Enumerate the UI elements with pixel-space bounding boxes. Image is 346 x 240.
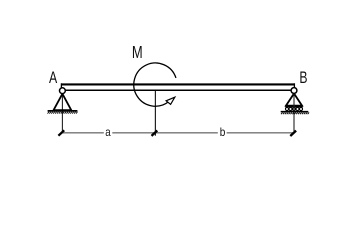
roller support B: base bar xyxy=(285,105,303,107)
pin support A: triangle xyxy=(54,94,72,110)
dimension tick at M xyxy=(152,131,158,136)
pin support A: hinge circle xyxy=(60,88,66,94)
roller support B: triangle xyxy=(286,94,302,106)
moment arc M xyxy=(134,63,176,106)
beam left end xyxy=(60,83,62,91)
svg-text:B: B xyxy=(299,68,307,87)
svg-text:b: b xyxy=(220,125,226,139)
svg-text:M: M xyxy=(132,42,143,62)
roller support B: hinge circle xyxy=(291,88,297,94)
dimension tick at B xyxy=(290,131,296,136)
beam right end xyxy=(293,83,295,91)
dimension extension line at B xyxy=(293,94,295,133)
ground hatching at A xyxy=(48,112,50,114)
svg-text:a: a xyxy=(105,125,111,139)
dimension tick at A xyxy=(58,130,64,135)
ground line at A xyxy=(48,110,78,112)
roller circles xyxy=(285,107,288,110)
beam top chord xyxy=(61,83,294,85)
moment arrowhead xyxy=(166,97,175,104)
dimension extension line at A xyxy=(61,94,63,133)
dimension extension line at M xyxy=(154,91,156,136)
ground hatching at B xyxy=(281,112,283,114)
ground line at B xyxy=(281,111,309,113)
dimension line b xyxy=(156,132,218,134)
svg-text:A: A xyxy=(49,68,58,87)
beam bottom chord xyxy=(61,89,294,91)
dimension line a xyxy=(63,132,104,134)
